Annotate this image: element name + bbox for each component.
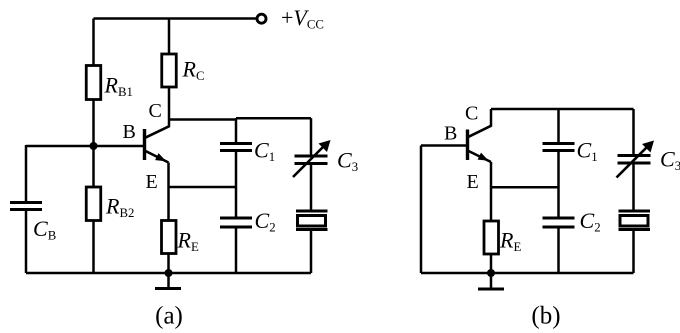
svg-text:(b): (b) (531, 303, 560, 330)
transistor Q1 emitter diagonal (145, 151, 169, 163)
wire C2 bottom (a) (235, 229, 238, 274)
wire C1 branch top (a) (235, 118, 238, 142)
resistor RB2 (86, 187, 101, 221)
wire C1 branch top (b) (557, 109, 560, 142)
transistor Q1 emitter arrow (155, 153, 166, 161)
resistor RC (162, 54, 177, 87)
transistor Q1 collector diagonal (145, 126, 169, 138)
wire base node to transistor (94, 145, 144, 148)
wire C2 bottom (b) (557, 229, 560, 274)
transistor Q2 collector diagonal (468, 126, 492, 138)
node ground junction (b) (487, 269, 495, 277)
wire RE bottom (a) (167, 254, 170, 274)
wire collector rail (a) (169, 118, 237, 121)
capacitor C3 (b) (618, 156, 651, 164)
wire collector vertical (b) (490, 109, 493, 127)
wire crystal bottom (b) (632, 231, 635, 273)
wire emitter to C1C2 node (b) (491, 186, 559, 189)
node base junction (90, 142, 98, 150)
wire C3 to crystal (a) (310, 165, 313, 210)
resistor RB1 (86, 66, 101, 100)
svg-text:E: E (467, 171, 479, 193)
ground stub (a) (167, 273, 170, 288)
wire emitter to C1C2 node (a) (169, 186, 237, 189)
resistor RE (b) (484, 221, 499, 254)
wire C1 to C2 (b) (557, 152, 560, 217)
wire base node to left branch (26, 145, 94, 148)
resistor RE (a) (162, 221, 177, 254)
svg-text:C: C (149, 100, 162, 122)
wire RE bottom (b) (490, 254, 493, 273)
wire emitter vertical (a) (167, 163, 170, 221)
wire RB1 bottom to base node (92, 100, 95, 147)
transistor Q2 emitter diagonal (468, 151, 492, 163)
wire RC top (168, 19, 171, 55)
wire left branch lower (25, 211, 28, 274)
svg-text:C: C (465, 103, 478, 125)
wire bottom rail (a) (26, 272, 311, 275)
wire RC bottom collector (168, 87, 171, 127)
wire left branch upper (25, 145, 28, 202)
wire C3 branch top (b) (632, 109, 635, 154)
wire crystal bottom (a) (310, 231, 313, 273)
svg-text:(a): (a) (155, 303, 183, 330)
crystal Y2 top plate (b) (619, 210, 651, 213)
wire RB1 top (92, 19, 95, 66)
crystal Y1 top plate (a) (296, 210, 328, 213)
ground bar (a) (155, 287, 181, 290)
capacitor CB (10, 203, 42, 210)
node ground junction (a) (165, 269, 173, 277)
capacitor C1 (b) (543, 144, 575, 151)
capacitor C2 (b) (543, 218, 575, 227)
terminal +Vcc (257, 14, 266, 23)
arrow C3 (a) (293, 140, 331, 177)
capacitor C1 (a) (220, 144, 252, 151)
svg-text:E: E (146, 171, 158, 193)
transistor Q1 base bar (143, 129, 146, 160)
wire top rail (b) (491, 108, 634, 111)
crystal Y2 bottom plate (b) (619, 228, 651, 231)
arrow C3 (b) (617, 141, 655, 178)
svg-text:B: B (123, 121, 136, 143)
wire bottom rail (b) (421, 272, 634, 275)
transistor Q2 emitter arrow (478, 153, 489, 161)
wire top supply rail (a) (94, 17, 257, 20)
crystal Y1 bottom plate (a) (296, 228, 328, 231)
ground bar (b) (478, 288, 504, 291)
wire C3 to crystal (b) (632, 165, 635, 210)
wire base (b) (421, 144, 466, 147)
svg-text:B: B (444, 123, 457, 145)
wire RB2 top (92, 146, 95, 187)
wire C1 to C2 (a) (235, 152, 238, 217)
transistor Q2 base bar (466, 130, 469, 161)
crystal Y2 body (b) (620, 216, 648, 227)
ground stub (b) (490, 273, 493, 288)
wire left rail (b) (420, 146, 423, 274)
crystal Y1 body (a) (298, 216, 326, 227)
wire emitter vertical (b) (490, 162, 493, 220)
wire C3 branch top (a) (310, 118, 313, 154)
capacitor C2 (a) (220, 218, 252, 227)
capacitor C3 (a) (295, 156, 328, 164)
wire RB2 bottom (92, 221, 95, 274)
